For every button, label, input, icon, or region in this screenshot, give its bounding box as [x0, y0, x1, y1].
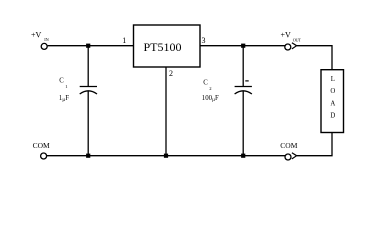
svg-text:L: L — [331, 76, 335, 83]
svg-text:COM: COM — [280, 141, 297, 150]
wire top-left: +Vin to pin 1 — [48, 45, 134, 47]
junction dot top C2 — [241, 44, 245, 48]
wire top-right: pin 3 to +Vout — [200, 45, 285, 47]
terminal COM left — [41, 153, 47, 159]
terminal +Vout — [285, 44, 291, 50]
op block U1 PT5100 — [134, 25, 201, 67]
wire C2 vertical lower — [242, 91, 244, 156]
junction dot top C1 — [86, 44, 90, 48]
svg-text:100µF: 100µF — [202, 95, 219, 103]
svg-text:IN: IN — [44, 37, 49, 42]
svg-text:+V: +V — [31, 31, 42, 40]
svg-text:C: C — [203, 79, 208, 86]
capacitor C2 polarity mark — [245, 80, 248, 81]
wire LOAD bottom to COM corner — [297, 133, 332, 156]
wire bottom rail — [47, 155, 285, 157]
svg-text:2: 2 — [169, 69, 173, 78]
svg-text:+V: +V — [281, 31, 292, 40]
svg-text:A: A — [330, 100, 335, 107]
wire pin2 vertical — [165, 67, 167, 156]
terminal COM right — [285, 154, 291, 160]
capacitor C2 — [235, 87, 252, 95]
label C1 — [59, 78, 68, 89]
wire C1 vertical lower — [87, 91, 89, 156]
junction dot bottom pin2 — [164, 154, 168, 158]
svg-text:3: 3 — [202, 36, 206, 45]
svg-text:COM: COM — [33, 141, 50, 150]
svg-text:1µF: 1µF — [59, 95, 69, 103]
wire C1 vertical upper — [87, 46, 89, 87]
wire +Vout to LOAD top — [297, 46, 332, 70]
wire C2 vertical upper — [242, 46, 244, 87]
svg-text:O: O — [330, 88, 335, 95]
svg-text:PT5100: PT5100 — [144, 40, 182, 54]
node +Vout label — [281, 31, 302, 43]
node +Vin label — [31, 31, 49, 42]
svg-text:1: 1 — [122, 36, 126, 45]
svg-text:C: C — [59, 78, 64, 85]
terminal COM right arrow — [292, 153, 297, 159]
svg-text:D: D — [330, 113, 335, 120]
junction dot bottom C2 — [241, 154, 245, 158]
junction dot bottom C1 — [86, 154, 90, 158]
terminal +Vin — [41, 43, 47, 49]
capacitor C1 — [80, 87, 97, 95]
load block — [321, 70, 344, 133]
terminal +Vout arrow — [292, 43, 297, 49]
svg-text:OUT: OUT — [293, 37, 302, 42]
label C2 — [203, 79, 212, 91]
